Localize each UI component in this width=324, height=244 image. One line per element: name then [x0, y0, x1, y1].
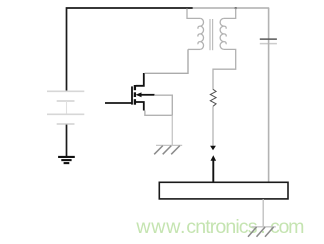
- arrowhead down (from resistor): [210, 146, 216, 151]
- transistor Q1 N-MOSFET: [132, 73, 155, 111]
- chassis ground (output): [248, 227, 276, 237]
- ground (earth, battery): [58, 157, 75, 163]
- transformer T1 core: [210, 19, 213, 50]
- battery B1: [47, 91, 84, 124]
- wire top rail black (battery + up and over to primary): [67, 8, 194, 91]
- wire drain to primary bottom: [145, 49, 188, 73]
- chassis ground (source): [154, 145, 182, 154]
- body arrow of Q1: [136, 92, 142, 97]
- transformer T1 primary winding: [187, 9, 204, 50]
- transformer T1 secondary winding: [213, 9, 236, 90]
- capacitor C1 bottom plate: [260, 43, 277, 45]
- wire gate lead: [105, 102, 132, 104]
- wire top rail gray (primary to secondary top and cap): [193, 7, 270, 9]
- arrow up (from block): [212, 160, 214, 182]
- wire cap vertical (top rail through cap down to block): [268, 8, 270, 182]
- junction secondary top to rail: [235, 7, 237, 9]
- wire source to chassis ground: [171, 115, 173, 145]
- capacitor C1 top plate: [260, 38, 277, 40]
- svg-text:www.cntronics.com: www.cntronics.com: [135, 216, 304, 238]
- block (control board): [159, 182, 288, 199]
- wire resistor to arrow: [212, 106, 214, 146]
- wire battery negative lead: [66, 125, 68, 157]
- wire body-source tie (gray loop): [145, 95, 172, 115]
- wire block to output chassis ground: [262, 199, 264, 227]
- resistor R1: [210, 89, 216, 106]
